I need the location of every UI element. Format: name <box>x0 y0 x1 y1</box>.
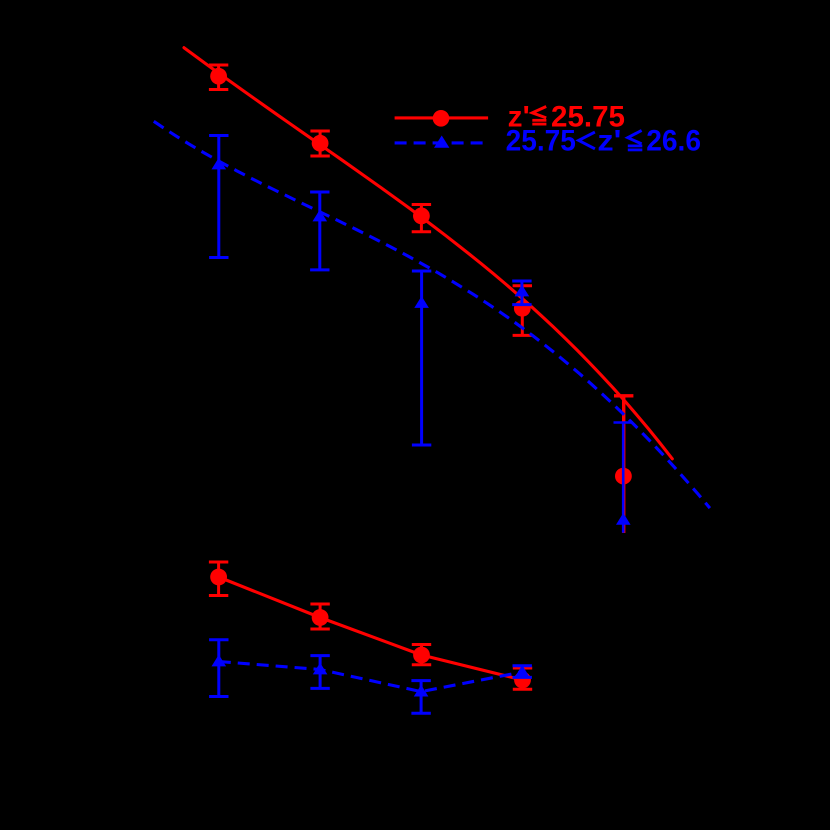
blue model curve (top panel, dashed) <box>154 121 710 508</box>
blue error bar TB3 (bottom panel) <box>411 681 430 714</box>
legend blue less-than-over-equal glyph <box>628 130 643 151</box>
legend red marker <box>433 110 450 127</box>
red error bar R2 (top panel) <box>310 131 329 156</box>
red data point P2 <box>312 135 329 152</box>
red error bar RB3 (bottom panel) <box>412 645 431 665</box>
blue data point T1 <box>212 158 227 170</box>
blue data point T5 <box>616 513 631 525</box>
blue error bar B1 (top panel) <box>209 136 228 258</box>
red data point P1 <box>210 68 227 85</box>
red error bar RB2 (bottom panel) <box>310 604 329 629</box>
blue error bar TB2 (bottom panel) <box>310 656 329 689</box>
blue error bar B5 (top panel, lower end open) <box>614 423 633 533</box>
red data point P4 <box>514 300 531 317</box>
blue data point T4 <box>515 285 530 297</box>
legend blue sample line (dashed) <box>395 141 489 144</box>
legend red sample line <box>395 116 489 119</box>
blue data point TB1 (bottom panel) <box>212 655 227 667</box>
red error bar R1 (top panel) <box>209 65 228 90</box>
svg-text:25.75: 25.75 <box>506 125 576 158</box>
red data point PB4 (bottom panel) <box>514 672 531 689</box>
red error bar R5 (top panel, lower end open) <box>614 396 633 533</box>
red error bar R3 (top panel) <box>412 205 431 232</box>
legend blue less-than glyph <box>579 132 595 149</box>
bottom panel blue dashed line <box>219 662 522 692</box>
red data point PB1 (bottom panel) <box>210 569 227 586</box>
red data point P3 <box>413 208 430 225</box>
red model curve (top panel, solid) <box>184 48 672 459</box>
legend label "25.75&lt;z'&#8806;26.6" <box>506 125 701 158</box>
blue data point TB3 (bottom panel) <box>414 685 429 697</box>
blue data point TB2 (bottom panel) <box>313 663 328 675</box>
blue error bar B3 (top panel) <box>412 271 431 445</box>
legend label "z'&#8806;25.75" <box>508 100 625 133</box>
blue error bar B4 (top panel) <box>512 281 531 305</box>
legend blue marker <box>434 136 449 148</box>
red data point PB3 (bottom panel) <box>413 647 430 664</box>
bottom panel red line <box>219 577 523 680</box>
svg-text:z': z' <box>597 125 621 158</box>
legend red less-than-over-equal glyph <box>532 107 546 126</box>
blue data point T3 <box>414 296 429 308</box>
red error bar R4 (top panel) <box>513 286 532 336</box>
blue data point T2 <box>313 210 328 222</box>
red error bar RB1 (bottom panel) <box>209 562 228 596</box>
red error bar RB4 (bottom panel) <box>513 668 532 689</box>
red data point P5 <box>615 468 632 485</box>
blue error bar B2 (top panel) <box>310 192 329 270</box>
blue error bar TB1 (bottom panel) <box>209 640 228 697</box>
svg-text:26.6: 26.6 <box>646 125 701 158</box>
blue data point TB4 (bottom panel) <box>515 665 530 677</box>
red data point PB2 (bottom panel) <box>312 609 329 626</box>
blue error bar TB4 (bottom panel) <box>513 666 532 678</box>
